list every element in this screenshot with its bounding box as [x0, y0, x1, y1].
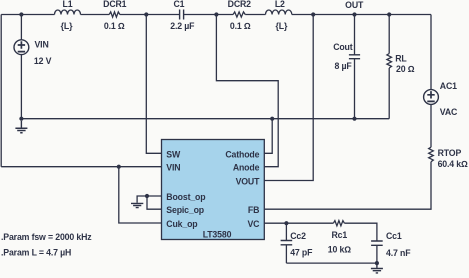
svg-text:10 kΩ: 10 kΩ: [328, 245, 351, 255]
wire middle rail (ground net): [21, 118, 389, 120]
svg-text:60.4 kΩ: 60.4 kΩ: [438, 159, 468, 169]
wire RTOP to FB pin: [264, 162, 431, 210]
svg-text:Cathode: Cathode: [225, 149, 259, 159]
resistor RTOP: [429, 147, 434, 162]
resistor DCR2: [233, 12, 245, 17]
wire branch to Cuk_op pin: [119, 167, 162, 223]
svg-text:0.1 Ω: 0.1 Ω: [104, 21, 125, 31]
wire left edge down: [0, 15, 2, 167]
svg-text:FB: FB: [248, 205, 259, 215]
wire top rail C1 to DCR2: [184, 14, 234, 16]
svg-text:RL: RL: [395, 54, 407, 64]
junction node Cout bottom: [352, 117, 356, 121]
wire Cathode pin to middle rail: [264, 119, 272, 154]
inductor L1: [55, 10, 81, 15]
svg-text:Anode: Anode: [233, 163, 260, 173]
wire node A to SW pin: [146, 15, 161, 154]
wire Rc1 to Cc1: [344, 223, 377, 241]
svg-text:RTOP: RTOP: [438, 148, 462, 158]
voltage source VIN: [14, 40, 29, 55]
svg-text:Rc1: Rc1: [331, 230, 347, 240]
wire top rail DCR2 to L2: [245, 14, 265, 16]
wire VIN pin rail: [1, 166, 161, 168]
junction node RL top: [387, 12, 391, 16]
svg-text:DCR2: DCR2: [228, 0, 252, 9]
svg-text:C1: C1: [173, 0, 184, 9]
junction node Cc1 bottom: [375, 261, 379, 265]
svg-text:VAC: VAC: [440, 107, 458, 117]
svg-text:.Param L = 4.7 µH: .Param L = 4.7 µH: [1, 248, 71, 258]
svg-text:Sepic_op: Sepic_op: [166, 205, 204, 215]
resistor RL: [387, 15, 392, 119]
svg-text:.Param fsw = 2000 kHz: .Param fsw = 2000 kHz: [1, 232, 92, 242]
svg-text:8 µF: 8 µF: [335, 61, 353, 71]
svg-text:{L}: {L}: [276, 21, 288, 31]
inductor L2: [266, 10, 292, 15]
capacitor C1: [180, 10, 184, 20]
junction node A (SW net): [144, 12, 148, 16]
svg-text:LT3580: LT3580: [203, 230, 232, 240]
ground at VIN: [15, 121, 27, 133]
wire AC1 to RTOP: [430, 104, 432, 147]
ground at Cc1: [371, 263, 383, 273]
svg-text:4.7 nF: 4.7 nF: [386, 248, 411, 258]
wire node B to Anode pin: [216, 15, 278, 167]
svg-text:VIN: VIN: [166, 163, 180, 173]
ground at Boost_op: [131, 203, 143, 207]
svg-text:DCR1: DCR1: [103, 0, 127, 9]
capacitor Cc1: [371, 241, 383, 263]
svg-text:VC: VC: [247, 219, 260, 229]
svg-text:{L}: {L}: [61, 21, 73, 31]
svg-text:Cuk_op: Cuk_op: [166, 219, 197, 229]
junction node Cc2 top: [284, 221, 288, 225]
svg-text:Cc1: Cc1: [386, 231, 402, 241]
svg-text:L2: L2: [275, 0, 285, 9]
junction node Cout top: [352, 12, 356, 16]
resistor Rc1: [333, 221, 344, 226]
wire VC pin to Rc1: [264, 222, 333, 224]
junction node on VIN rail: [117, 165, 121, 169]
wire top rail DCR1 to C1: [120, 14, 180, 16]
junction node B (C1-DCR2): [214, 12, 218, 16]
capacitor Cout: [349, 15, 360, 119]
svg-text:20 Ω: 20 Ω: [396, 64, 415, 74]
op-amp U1 LT3580 body: [162, 140, 265, 240]
capacitor Cc2: [281, 223, 293, 263]
svg-text:VOUT: VOUT: [236, 176, 261, 186]
junction node Boost/Sepic tie: [145, 194, 149, 198]
junction node VIN top: [19, 12, 23, 16]
wire Boost_op pin to ground: [137, 196, 161, 203]
svg-text:Cc2: Cc2: [290, 231, 306, 241]
junction node VIN ground: [19, 117, 23, 121]
wire Sepic_op tie-down: [147, 196, 162, 209]
svg-text:VIN: VIN: [35, 39, 49, 49]
wire top rail L2 to right corner: [292, 14, 431, 16]
svg-text:2.2 µF: 2.2 µF: [170, 21, 195, 31]
svg-text:AC1: AC1: [440, 81, 457, 91]
wire OUT node to VOUT pin: [264, 15, 313, 181]
svg-text:Boost_op: Boost_op: [166, 192, 205, 202]
svg-text:47 pF: 47 pF: [290, 248, 313, 258]
junction node OUT: [311, 12, 315, 16]
svg-text:12 V: 12 V: [34, 56, 52, 66]
wire top rail left segment: [1, 14, 54, 16]
svg-text:0.1 Ω: 0.1 Ω: [230, 21, 251, 31]
wire VIN node to source: [20, 15, 22, 40]
wire right edge down to AC1: [430, 15, 432, 90]
wire VIN source to ground node: [20, 55, 22, 119]
wire bottom rail Cc2 to Cc1: [286, 262, 377, 264]
svg-text:Cout: Cout: [333, 42, 353, 52]
svg-text:OUT: OUT: [345, 0, 364, 10]
resistor DCR1: [109, 12, 120, 17]
junction node Cathode on middle rail: [270, 117, 274, 121]
wire top rail L1 to DCR1: [81, 14, 110, 16]
source AC1: [424, 90, 439, 105]
svg-text:SW: SW: [166, 149, 181, 159]
svg-text:L1: L1: [63, 0, 73, 9]
